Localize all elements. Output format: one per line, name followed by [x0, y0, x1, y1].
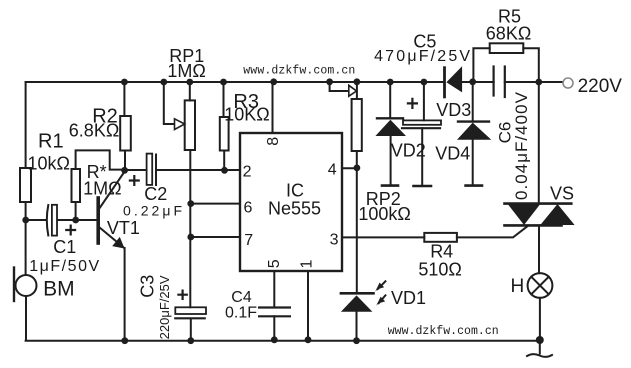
- svg-text:100kΩ: 100kΩ: [358, 204, 411, 224]
- svg-text:VD2: VD2: [391, 140, 426, 160]
- svg-text:1μF/50V: 1μF/50V: [29, 258, 99, 275]
- svg-text:BM: BM: [43, 278, 75, 301]
- svg-text:2: 2: [243, 164, 252, 181]
- svg-text:470μF/25V: 470μF/25V: [374, 48, 470, 65]
- svg-text:Ne555: Ne555: [268, 199, 321, 219]
- svg-text:7: 7: [244, 232, 253, 249]
- svg-text:10kΩ: 10kΩ: [28, 153, 70, 173]
- svg-text:0.1F: 0.1F: [225, 305, 257, 322]
- svg-text:0.22μF: 0.22μF: [123, 202, 182, 218]
- svg-text:VS: VS: [550, 183, 574, 203]
- svg-text:C4: C4: [231, 289, 252, 306]
- svg-text:1: 1: [299, 259, 316, 268]
- svg-text:www.dzkfw.com.cn: www.dzkfw.com.cn: [243, 64, 355, 77]
- svg-text:C2: C2: [144, 184, 167, 204]
- svg-text:5: 5: [266, 259, 283, 268]
- svg-text:68KΩ: 68KΩ: [486, 23, 531, 43]
- svg-text:220μF/25V: 220μF/25V: [157, 275, 172, 339]
- svg-text:VD3: VD3: [436, 100, 471, 120]
- svg-text:R1: R1: [38, 131, 64, 153]
- svg-text:510Ω: 510Ω: [418, 260, 462, 280]
- svg-text:VD4: VD4: [435, 144, 470, 164]
- svg-text:0.04μF/400V: 0.04μF/400V: [512, 91, 531, 200]
- svg-text:220V: 220V: [578, 76, 623, 97]
- svg-text:VD1: VD1: [391, 288, 426, 308]
- svg-text:1MΩ: 1MΩ: [167, 61, 205, 81]
- svg-text:4: 4: [328, 161, 337, 178]
- svg-text:H: H: [511, 276, 525, 297]
- svg-text:6.8KΩ: 6.8KΩ: [69, 121, 119, 141]
- svg-text:10KΩ: 10KΩ: [224, 105, 269, 125]
- svg-text:C3: C3: [138, 275, 158, 298]
- svg-text:6: 6: [244, 199, 253, 216]
- svg-text:8: 8: [265, 137, 282, 146]
- svg-text:3: 3: [330, 231, 339, 248]
- svg-text:www.dzkfw.com.cn: www.dzkfw.com.cn: [388, 325, 499, 338]
- svg-text:C1: C1: [53, 237, 76, 257]
- svg-text:1MΩ: 1MΩ: [83, 178, 121, 198]
- svg-text:VT1: VT1: [107, 218, 140, 238]
